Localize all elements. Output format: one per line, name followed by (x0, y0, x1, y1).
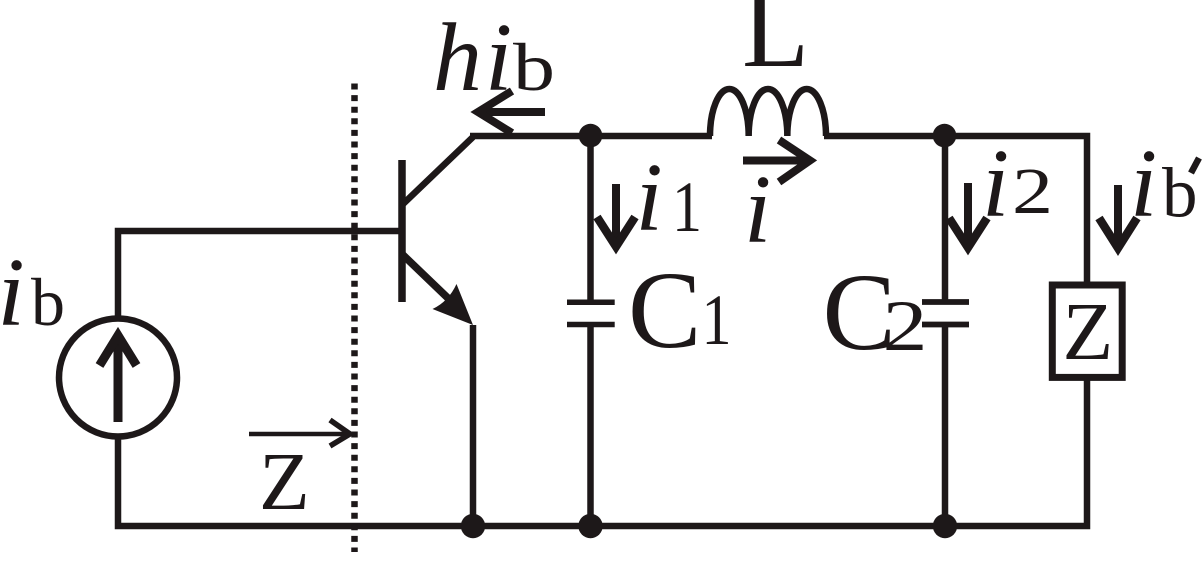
svg-text:i: i (0, 239, 25, 347)
svg-text:i: i (744, 156, 771, 264)
svg-text:1: 1 (702, 280, 732, 360)
svg-text:Z: Z (1063, 285, 1114, 377)
svg-text:2: 2 (1012, 155, 1053, 228)
svg-text:Z: Z (259, 435, 310, 527)
svg-text:i: i (1130, 130, 1157, 238)
svg-text:2: 2 (883, 286, 928, 366)
svg-text:C: C (628, 249, 701, 371)
svg-text:L: L (742, 0, 809, 90)
svg-text:i: i (485, 4, 512, 112)
svg-text:i: i (982, 130, 1009, 238)
svg-text:i: i (636, 144, 663, 252)
svg-text:b: b (31, 264, 65, 340)
svg-text:1: 1 (672, 167, 702, 247)
svg-text:h: h (433, 4, 482, 112)
svg-text:b: b (513, 29, 555, 105)
